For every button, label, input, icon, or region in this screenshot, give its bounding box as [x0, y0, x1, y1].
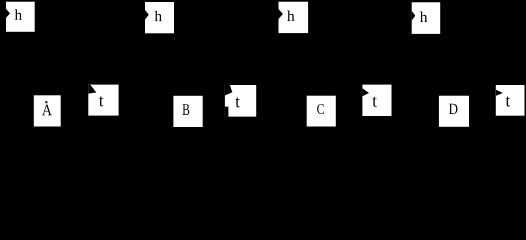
- edge tail dot above A: [45, 101, 47, 103]
- node t1: [88, 85, 118, 116]
- arrowhead into h3: [279, 9, 283, 19]
- arrowhead into h4: [412, 11, 416, 21]
- arrowhead into t4: [496, 90, 503, 96]
- node t2: [225, 85, 256, 117]
- arrowhead into t3: [362, 88, 369, 96]
- node h3: [279, 2, 309, 33]
- node h2: [145, 2, 174, 33]
- node B: [173, 96, 202, 127]
- node D: [439, 96, 469, 127]
- arrowhead into t2 (horizontal, lower-left): [225, 107, 229, 117]
- node t4: [496, 85, 525, 116]
- arrowhead into h1: [6, 9, 10, 18]
- node h4: [412, 2, 441, 34]
- node t3: [362, 85, 391, 116]
- node h1: [6, 2, 35, 32]
- arrowhead into h2: [145, 10, 149, 20]
- node C: [307, 96, 336, 127]
- arrowhead into t1: [88, 85, 96, 94]
- arrowhead into t2 (diagonal, top-left): [225, 85, 232, 96]
- node A: [34, 95, 61, 126]
